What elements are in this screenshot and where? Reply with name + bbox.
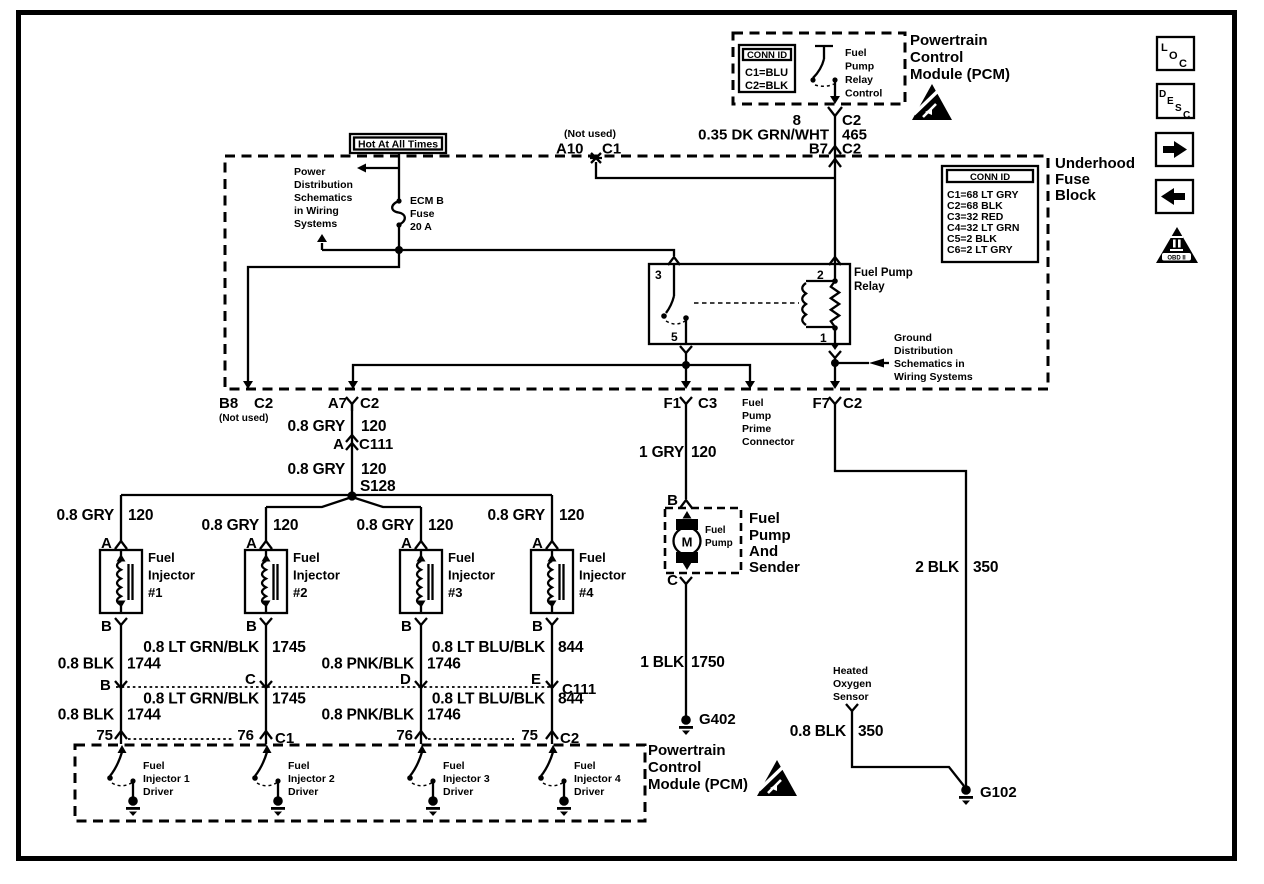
wire branch to Ground Distribution [835,362,869,364]
wire: branch to fuel pump prime connector [686,365,750,381]
junction node pin5/F1 [682,361,690,369]
svg-text:#3: #3 [448,585,462,600]
Hot At All Times banner [350,134,446,153]
svg-text:Fuel Pump: Fuel Pump [854,267,913,279]
svg-text:Injector: Injector [293,568,340,583]
svg-text:75: 75 [521,727,538,744]
relay pin 5 to F1 [680,346,692,353]
injector #4 pin A [532,535,558,552]
svg-text:76: 76 [396,727,413,744]
label: Power Distribution Schematics in Wiring Systems [294,166,353,230]
svg-text:Fuel: Fuel [705,525,726,536]
label: Powertrain Control Module (PCM) top [910,32,1010,83]
svg-text:CONN ID: CONN ID [747,50,787,61]
label: Powertrain Control Module (PCM) bottom [648,742,748,793]
svg-text:Driver: Driver [143,786,173,798]
svg-text:(Not used): (Not used) [564,128,616,140]
svg-text:Block: Block [1055,187,1097,204]
wire label 0.8 GRY 120 (injector #2) [202,517,299,534]
connector B8 C2 (not used) [219,395,273,424]
svg-text:Injector: Injector [148,568,195,583]
svg-text:1744: 1744 [127,656,161,673]
svg-text:3: 3 [655,268,662,282]
svg-text:120: 120 [559,507,584,524]
label: Fuel Injector #3 [448,550,495,600]
fuel pump pin B [667,492,692,509]
svg-text:L: L [1161,42,1168,54]
wire label 0.8 LT BLU/BLK 844 (below C111) [432,691,584,708]
svg-text:1 BLK: 1 BLK [640,654,685,671]
svg-text:C: C [1179,58,1187,70]
svg-text:0.8 GRY: 0.8 GRY [357,517,415,534]
svg-text:1745: 1745 [272,691,306,708]
svg-text:Connector: Connector [742,436,795,448]
wire label 0.35 DK GRN/WHT 465 [698,127,867,144]
svg-text:75: 75 [96,727,113,744]
svg-text:Distribution: Distribution [294,179,353,191]
fuse ECM B 20 A [392,198,405,227]
svg-text:Control: Control [845,88,882,100]
svg-text:Wiring Systems: Wiring Systems [894,371,973,383]
label: Fuel Pump Relay [854,267,913,293]
C111 connector dashed line [116,686,554,688]
svg-text:#2: #2 [293,585,307,600]
svg-text:C: C [667,572,678,589]
fuel injector 1 driver switch [107,745,135,797]
svg-text:A10: A10 [556,141,584,158]
wire: injector feed bus from S128 [121,494,552,496]
connector F7 C2 [812,395,862,412]
svg-text:20 A: 20 A [410,221,432,233]
svg-text:C111: C111 [562,681,596,698]
injector #3 pin A [401,535,427,552]
wire label 0.8 BLK 1744 (below C111) [58,707,162,724]
wire label 0.8 GRY 120 (injector #4) [488,507,585,524]
svg-text:1746: 1746 [427,707,461,724]
svg-text:B: B [100,677,111,694]
wire: 0.8 GRY feed to fuel injector #3 [420,507,422,541]
injector #1 pin A [101,535,127,552]
svg-text:ECM B: ECM B [410,195,444,207]
fuel injector #1 [100,550,142,613]
svg-text:E: E [1167,96,1174,107]
fuel injector #3 [400,550,442,613]
svg-text:Fuel: Fuel [143,760,165,772]
wire label 0.8 GRY 120 (injector #3) [357,517,454,534]
C111 in-line connector pin C [245,671,272,688]
ground (fuel injector 4 driver) [559,796,569,806]
wire label 0.8 PNK/BLK 1746 (above C111) [321,656,461,673]
wire label 0.8 PNK/BLK 1746 (below C111) [321,707,461,724]
label: Fuel Pump And Sender [749,510,800,576]
PCM (top) dashed module box [733,33,905,104]
relay pin 1 to F7 [834,328,836,344]
C111 in-line connector pin D [400,671,427,688]
label: Fuel Pump (motor) [705,525,733,549]
svg-text:S128: S128 [360,478,396,495]
svg-text:Pump: Pump [749,527,791,544]
svg-text:F1: F1 [663,395,681,412]
svg-text:120: 120 [428,517,453,534]
wire: 2 BLK 350, F7 to G102 [835,404,966,787]
wire label 1 GRY 120 [639,444,716,461]
Fuel Pump Relay box [649,264,850,344]
svg-text:C2: C2 [843,395,862,412]
wire: battery feed down from Hot At All Times [398,153,400,200]
svg-text:#4: #4 [579,585,594,600]
wire: 1 GRY 120, F1 to fuel pump [685,404,687,499]
svg-text:F7: F7 [812,395,830,412]
svg-text:D: D [400,671,411,688]
svg-text:120: 120 [361,418,386,435]
svg-text:Fuse: Fuse [1055,171,1090,188]
svg-text:E: E [531,671,541,688]
wire: injector #2 return to PCM [265,625,267,744]
wire: 0.35 DK GRN/WHT 465, PCM pin 8/C2 to underhood fuse block B7/C2 [834,116,836,281]
wire: branch to B8 (not used) [248,250,399,381]
svg-text:Injector 4: Injector 4 [574,773,621,785]
wire label 0.8 LT GRN/BLK 1745 (above C111) [143,639,306,656]
label: Fuel Injector #4 [579,550,626,600]
wire: injector #3 return to PCM [420,625,422,744]
label: Fuel Injector 2 Driver [288,760,335,798]
PCM pin 75 [96,727,127,744]
icon: DESC button [1157,84,1194,121]
svg-text:Ground: Ground [894,332,932,344]
svg-text:Fuel: Fuel [845,47,867,59]
svg-text:Underhood: Underhood [1055,155,1135,172]
svg-text:Module (PCM): Module (PCM) [910,66,1010,83]
label: Fuel Injector #1 [148,550,195,600]
svg-text:(Not used): (Not used) [219,413,268,424]
svg-text:Driver: Driver [574,786,604,798]
label: Fuel Injector 4 Driver [574,760,621,798]
svg-text:Hot At All Times: Hot At All Times [358,139,438,151]
svg-text:B: B [667,492,678,509]
label: ECM B Fuse 20 A [410,195,444,233]
svg-text:Fuel: Fuel [574,760,596,772]
icon: next arrow button [1156,133,1193,166]
svg-text:0.8 LT BLU/BLK: 0.8 LT BLU/BLK [432,639,546,656]
svg-text:0.8 BLK: 0.8 BLK [790,723,847,740]
svg-text:O: O [1169,50,1178,62]
svg-text:Module (PCM): Module (PCM) [648,776,748,793]
svg-text:Schematics: Schematics [294,192,353,204]
PCM pin 75 [521,727,558,744]
fuel injector #2 [245,550,287,613]
PCM internal fuel-pump-relay-control switch [810,46,840,104]
svg-text:Powertrain: Powertrain [910,32,988,49]
svg-text:1746: 1746 [427,656,461,673]
junction node pin1/F7 [831,359,839,367]
svg-text:1744: 1744 [127,707,161,724]
wire: 1 BLK 1750 to G402 [685,584,687,716]
svg-text:B: B [532,618,543,635]
svg-text:C: C [245,671,256,688]
wire: injector #1 return to PCM [120,625,122,744]
fuel pump pin C [667,572,692,589]
connector F1 C3 [663,395,717,412]
ground G402 [681,715,691,725]
label: Fuel Pump Relay Control [845,47,882,100]
svg-text:Pump: Pump [845,61,874,73]
injector #2 pin B [246,618,272,635]
svg-text:0.8 PNK/BLK: 0.8 PNK/BLK [321,656,415,673]
ESD symbol (top PCM) [912,84,952,120]
svg-text:OBD II: OBD II [1167,256,1186,262]
svg-text:B: B [246,618,257,635]
injector #2 pin A [246,535,272,552]
svg-text:Relay: Relay [845,74,873,86]
svg-text:0.8 GRY: 0.8 GRY [202,517,260,534]
injector #4 pin B [532,618,558,635]
svg-text:C2: C2 [360,395,379,412]
svg-text:S: S [1175,103,1182,114]
svg-text:350: 350 [858,723,883,740]
relay pin numbers [655,268,827,345]
svg-text:Powertrain: Powertrain [648,742,726,759]
ESD symbol (bottom PCM) [757,760,797,796]
svg-text:2 BLK: 2 BLK [915,559,960,576]
svg-text:Driver: Driver [288,786,318,798]
icon: back arrow button [1156,180,1193,213]
svg-text:C1=BLU: C1=BLU [745,67,788,79]
svg-text:Injector: Injector [448,568,495,583]
svg-text:Fuel: Fuel [288,760,310,772]
svg-text:Oxygen: Oxygen [833,678,872,690]
svg-text:Schematics in: Schematics in [894,358,965,370]
connector A C111 [333,435,393,453]
label: Heated Oxygen Sensor [833,665,872,703]
svg-text:0.8 GRY: 0.8 GRY [288,418,346,435]
wire label 0.8 BLK 350 [790,723,884,740]
wire: A7 down to S128 [351,404,353,496]
svg-text:D: D [1159,89,1166,100]
svg-text:Injector 1: Injector 1 [143,773,190,785]
svg-text:Heated: Heated [833,665,868,677]
svg-text:0.8 GRY: 0.8 GRY [488,507,546,524]
svg-text:76: 76 [237,727,254,744]
wire label 0.8 LT GRN/BLK 1745 (below C111) [143,691,306,708]
wire: fuse to bus [398,225,400,250]
svg-text:120: 120 [691,444,716,461]
svg-text:Injector: Injector [579,568,626,583]
svg-text:Sender: Sender [749,559,800,576]
svg-text:120: 120 [128,507,153,524]
svg-text:5: 5 [671,330,678,344]
wire label 0.8 LT BLU/BLK 844 (above C111) [432,639,584,656]
PCM pin 76 [396,727,427,744]
PCM connector dashed pin lines [128,738,232,740]
svg-text:Fuel: Fuel [448,550,475,565]
C111 in-line connector pin E [531,671,558,688]
svg-text:Fuel: Fuel [742,397,764,409]
relay pin 3 entry [668,257,680,265]
wire label 0.8 BLK 1744 (above C111) [58,656,162,673]
wire: 0.8 BLK 350 from HO2S to G102 [852,711,964,786]
label: Fuel Injector 1 Driver [143,760,190,798]
wire: main switched feed to A7 [353,365,686,381]
arrow branch up to Power Distribution text [321,243,323,250]
wire label 0.8 GRY 120 (above C111) [288,418,387,435]
connector A10 C1 (not used) [556,128,621,158]
C111 in-line connector pin B [100,677,127,694]
svg-text:Control: Control [648,759,701,776]
svg-text:Power: Power [294,166,326,178]
A10 terminal star [590,153,602,163]
svg-text:120: 120 [273,517,298,534]
Underhood Fuse Block dashed box [225,156,1048,389]
connector pin 8 C2 (female) [828,107,842,116]
Powertrain Control Module (PCM) dashed box (bottom) [75,745,645,821]
svg-text:And: And [749,543,778,560]
svg-text:Relay: Relay [854,281,885,293]
wire label 1 BLK 1750 [640,654,724,671]
svg-text:B: B [101,618,112,635]
svg-text:350: 350 [973,559,998,576]
wire: 0.8 GRY feed to fuel injector #1 [120,495,122,541]
relay linkage (dashed) [694,302,799,304]
fuel pump motor M [674,511,701,570]
fuse block conn-id table [942,166,1038,262]
relay switch [661,296,689,344]
injector #1 pin B [101,618,127,635]
ground (fuel injector 2 driver) [273,796,283,806]
ground (fuel injector 3 driver) [428,796,438,806]
svg-text:C3: C3 [698,395,717,412]
svg-text:Distribution: Distribution [894,345,953,357]
ground (fuel injector 1 driver) [128,796,138,806]
label: Underhood Fuse Block [1055,155,1135,204]
svg-text:Fuel: Fuel [293,550,320,565]
PCM pin 76 [237,727,272,744]
svg-text:#1: #1 [148,585,162,600]
fuel injector 4 driver switch [538,745,566,797]
svg-text:Injector 2: Injector 2 [288,773,335,785]
svg-text:B8: B8 [219,395,238,412]
svg-text:G102: G102 [980,784,1017,801]
Fuel Pump And Sender dashed box [665,508,741,573]
svg-text:Fuel: Fuel [443,760,465,772]
wire: injector #4 return to PCM [551,625,553,744]
wire: 0.8 GRY feed to fuel injector #4 [551,495,553,541]
wire: A10 jumper to B7 wire [596,162,835,178]
svg-text:0.8 BLK: 0.8 BLK [58,707,115,724]
relay pin 2 entry [829,257,841,265]
svg-text:Pump: Pump [705,538,733,549]
relay coil [802,278,839,331]
wire: horizontal feed bus to relay pin 3 [322,250,674,256]
label: Ground Distribution Schematics in Wiring Systems [894,332,973,383]
svg-text:Control: Control [910,49,963,66]
splice node at fuse output [395,246,403,254]
connector pin B7 C2 (male) [829,146,841,154]
svg-text:CONN ID: CONN ID [970,172,1010,183]
svg-text:Fuel: Fuel [148,550,175,565]
wire label 0.8 GRY 120 (below C111) [288,461,387,478]
svg-text:1750: 1750 [691,654,725,671]
svg-text:Driver: Driver [443,786,473,798]
svg-text:M: M [682,535,693,550]
svg-text:0.8 LT GRN/BLK: 0.8 LT GRN/BLK [143,639,260,656]
arrow to Power Distribution [362,167,399,169]
fuel injector #4 [531,550,573,613]
svg-text:1 GRY: 1 GRY [639,444,685,461]
pin arrow into fuse block at B7 [829,159,841,167]
svg-text:Pump: Pump [742,410,771,422]
svg-text:Fuse: Fuse [410,208,435,220]
svg-text:0.8 GRY: 0.8 GRY [57,507,115,524]
PCM conn-id table (C1=BLU C2=BLK) [739,45,795,92]
svg-text:120: 120 [361,461,386,478]
icon: LOC button [1157,37,1194,70]
wire label 0.8 GRY 120 (injector #1) [57,507,154,524]
injector #3 pin B [401,618,427,635]
HO2S connector [846,704,858,711]
label: Fuel Pump Prime Connector [742,397,795,448]
svg-text:Fuel: Fuel [749,510,780,527]
svg-text:G402: G402 [699,711,736,728]
svg-text:C2: C2 [254,395,273,412]
svg-text:C6=2 LT GRY: C6=2 LT GRY [947,244,1013,256]
wire label 2 BLK 350 [915,559,998,576]
ground G102 [961,785,971,795]
fuel injector 3 driver switch [407,745,435,797]
svg-text:0.8 BLK: 0.8 BLK [58,656,115,673]
svg-text:0.8 LT GRN/BLK: 0.8 LT GRN/BLK [143,691,260,708]
label: Fuel Injector 3 Driver [443,760,490,798]
fuel injector 2 driver switch [252,745,280,797]
icon: OBD II triangle [1156,227,1198,263]
svg-text:B: B [401,618,412,635]
svg-text:A7: A7 [328,395,347,412]
svg-text:1: 1 [820,331,827,345]
svg-text:844: 844 [558,639,584,656]
svg-text:A: A [333,436,344,453]
wire: 0.8 GRY feed to fuel injector #2 [265,507,267,541]
svg-text:C: C [1183,110,1190,121]
svg-text:1745: 1745 [272,639,306,656]
svg-text:0.8 PNK/BLK: 0.8 PNK/BLK [321,707,415,724]
connector A7 C2 [328,395,379,412]
svg-text:Injector 3: Injector 3 [443,773,490,785]
svg-text:Fuel: Fuel [579,550,606,565]
svg-text:Systems: Systems [294,218,337,230]
label: Fuel Injector #2 [293,550,340,600]
svg-text:0.8 GRY: 0.8 GRY [288,461,346,478]
svg-text:C1: C1 [602,141,621,158]
svg-text:Prime: Prime [742,423,771,435]
svg-text:C2=BLK: C2=BLK [745,80,788,92]
svg-text:Sensor: Sensor [833,691,869,703]
svg-text:C111: C111 [359,436,393,453]
svg-text:0.8 LT BLU/BLK: 0.8 LT BLU/BLK [432,691,546,708]
svg-text:in Wiring: in Wiring [294,205,339,217]
